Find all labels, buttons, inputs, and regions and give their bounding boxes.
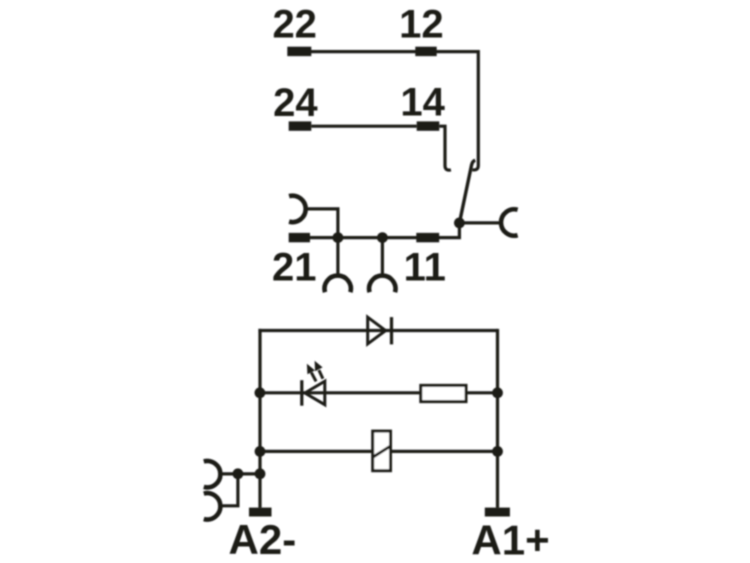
wire 24 to 14 [311, 125, 416, 128]
node left rail middle branch [255, 387, 266, 398]
svg-text:14: 14 [400, 81, 445, 125]
wire A2 clamp row [223, 472, 261, 475]
node right rail middle branch [492, 387, 503, 398]
coil branch wire left [260, 450, 373, 453]
node left rail clamp row [255, 468, 266, 479]
stub to clamp under bus 2 [381, 238, 384, 277]
LED triangle [305, 381, 325, 405]
wire 12 to NC fixed contact (right vertical with hook) [437, 52, 479, 170]
svg-text:A2-: A2- [229, 516, 297, 563]
plug clamp contact A2 upper [204, 461, 221, 487]
svg-text:12: 12 [399, 3, 444, 47]
clamp under bus 1 [325, 276, 351, 293]
LED emission arrow 2 shaft [319, 370, 323, 379]
LED emission arrow 1 head [307, 364, 315, 374]
coil branch wire right [391, 450, 498, 453]
node left rail coil branch [255, 446, 266, 457]
terminal bar 21 [289, 233, 310, 242]
wire clamp to bus junction [307, 209, 338, 238]
terminal bar 22 [287, 47, 311, 56]
node bus junction 1 [333, 232, 344, 243]
svg-text:21: 21 [272, 246, 317, 290]
coil circuit left rail [258, 329, 261, 508]
LED emission arrow 2 head [315, 361, 323, 371]
stub to clamp under bus 1 [336, 238, 339, 277]
svg-text:A1+: A1+ [471, 517, 549, 563]
bus wire 21 segment [310, 236, 417, 239]
wire 22 to 12 [311, 50, 416, 53]
top branch wire [258, 329, 497, 332]
terminal bar A1 [485, 508, 510, 517]
relay coil K1 [373, 431, 391, 471]
wire A2 clamp vertical [236, 474, 239, 506]
terminal bar 14 [417, 121, 440, 130]
coil K1 diagonal [373, 446, 391, 457]
terminal bar 11 [416, 233, 439, 242]
plug clamp contact left of 21 [289, 196, 306, 222]
plug clamp contact right of 11 [501, 209, 518, 235]
terminal bar A2 [249, 508, 272, 517]
wire 14 to NO fixed contact (vertical with hook) [439, 126, 451, 170]
middle branch wire right of resistor [467, 391, 497, 394]
terminal bar 24 [289, 121, 312, 130]
node A2 clamp junction [233, 468, 244, 479]
terminal bar 12 [415, 47, 436, 56]
coil circuit right rail [496, 329, 499, 508]
node switch pivot [454, 218, 465, 229]
svg-text:24: 24 [273, 81, 318, 125]
freewheeling diode V1 triangle [368, 317, 386, 344]
node right rail coil branch [492, 446, 503, 457]
middle branch wire [260, 391, 420, 394]
switch arm common contact [459, 160, 475, 223]
node bus junction 2 [377, 232, 388, 243]
LED cathode bar [300, 380, 303, 406]
plug clamp contact A2 lower [204, 493, 221, 519]
diode V1 cathode bar [390, 317, 393, 344]
svg-text:11: 11 [404, 246, 446, 290]
wire pivot to right clamp [459, 221, 501, 224]
resistor R1 [421, 385, 466, 401]
svg-text:22: 22 [272, 3, 317, 47]
LED emission arrow 1 shaft [311, 372, 316, 381]
bus wire 11 to pivot riser [439, 223, 459, 238]
clamp under bus 2 [369, 276, 395, 293]
wire A2 lower clamp [223, 504, 240, 507]
